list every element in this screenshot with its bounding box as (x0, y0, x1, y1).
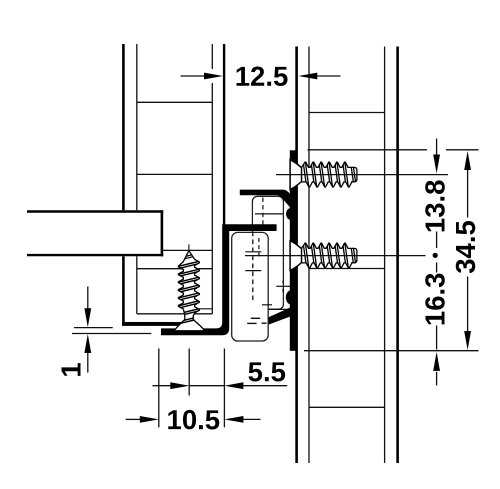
dim 5.5 arrow left (170, 382, 189, 389)
runner bar right edge (161, 210, 164, 256)
bracket foot line (268, 308, 290, 310)
right panel inner left line (308, 47, 310, 464)
svg-text:1: 1 (56, 362, 87, 377)
right panel rung 3 (309, 406, 385, 408)
left panel bottom edge (122, 322, 196, 326)
tick lug upper (255, 213, 284, 215)
dim 5.5 tail left (153, 385, 172, 387)
left panel inner bottom line (137, 313, 213, 315)
left panel rung 2 (137, 173, 213, 175)
right panel inner right line (384, 47, 386, 464)
equal mark 1 (251, 317, 260, 319)
dim 10.5 tail right (243, 418, 260, 420)
mounting screw lower (290, 241, 302, 271)
dim chain line a (436, 232, 438, 249)
dim 10.5 arrow right (224, 416, 243, 423)
dim 1 lower arrow (84, 334, 91, 353)
dim 13.8 arrow top (436, 139, 438, 156)
right panel outer right edge (396, 47, 399, 464)
dim 5.5 arrow right (224, 382, 243, 389)
bracket wall band (290, 150, 297, 350)
pocket step line (195, 308, 212, 310)
right panel outer left edge (295, 47, 298, 464)
svg-text:13.8: 13.8 (419, 180, 450, 234)
runner bar white body (27, 210, 162, 256)
dim 12.5 line left (181, 75, 206, 77)
dim 10.5 arrow left (140, 416, 159, 423)
lower housing (232, 232, 269, 341)
dim 16.3 arrow bottom (433, 352, 440, 371)
left panel inner right line (211, 44, 213, 69)
dim 10.5 tail left (126, 418, 141, 420)
bracket lug lower (286, 290, 296, 304)
ext line x189.2 (188, 349, 190, 396)
upper housing (252, 196, 283, 309)
equal mark 2 (247, 322, 256, 324)
dim 12.5 arrow right (298, 73, 317, 80)
dim 1 tick lower (72, 333, 151, 335)
dim 1 upper arrow (87, 287, 89, 310)
dim 1 tick upper (74, 327, 113, 329)
svg-text:16.3: 16.3 (419, 273, 450, 327)
screw2 axis line (245, 255, 426, 257)
right panel rung 2 (309, 268, 385, 270)
dim chain line b (436, 263, 438, 273)
dim 5.5 line mid (189, 385, 224, 387)
ext line x224.4 (223, 349, 225, 428)
dashed centreline B (258, 238, 260, 258)
screw tip reference line (161, 249, 213, 251)
ext line x158.8 (158, 349, 160, 428)
dim 12.5 arrow left (204, 73, 223, 80)
dim chain dot (433, 253, 438, 258)
left panel rung 1 (137, 101, 213, 103)
ext line bottom y350.7 (304, 350, 479, 352)
runner bar bottom edge (27, 254, 163, 256)
dim 34.5 arrow top (464, 151, 471, 170)
dim 34.5 line lower (467, 277, 469, 332)
cross mark (276, 285, 290, 287)
screw1 axis line (276, 174, 448, 176)
tick 3 (262, 304, 272, 306)
tick 2 (245, 270, 261, 272)
left panel inner left line (136, 44, 138, 314)
vertical screw axis tick (188, 244, 190, 251)
dim 34.5 arrow bottom (464, 331, 471, 350)
svg-text:10.5: 10.5 (167, 404, 221, 435)
dim chain line c (436, 326, 438, 350)
svg-text:5.5: 5.5 (248, 356, 286, 387)
mounting screw upper (290, 160, 302, 190)
dim 12.5 line right (317, 75, 341, 77)
dashed centreline A (252, 232, 254, 304)
bracket foot (268, 308, 296, 325)
svg-text:12.5: 12.5 (235, 61, 289, 92)
tick 1 (245, 251, 261, 253)
bracket lug upper (286, 208, 296, 220)
left panel outer right edge (223, 44, 225, 225)
left panel outer left edge (122, 44, 125, 326)
left panel rung 3 (137, 268, 213, 270)
right panel rung 1 (309, 112, 385, 114)
dim 5.5 tail right (243, 385, 287, 387)
svg-text:34.5: 34.5 (450, 220, 481, 274)
runner bar top edge (27, 210, 163, 212)
drawer bracket profile (161, 224, 277, 335)
ext line top y149.8 (308, 149, 428, 151)
dashed centreline C (262, 198, 264, 225)
bracket upper arm (240, 190, 297, 208)
